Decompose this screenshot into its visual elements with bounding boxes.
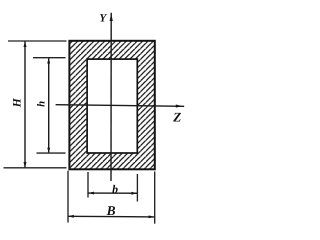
outer rectangle border xyxy=(69,41,154,170)
inner rectangle border xyxy=(87,59,137,153)
svg-text:B: B xyxy=(106,203,116,218)
h dimension bottom arrow xyxy=(47,148,50,153)
B left extension line xyxy=(67,171,69,223)
h dimension top arrow xyxy=(47,58,50,64)
h dimension line xyxy=(48,58,50,152)
B right extension line xyxy=(154,172,156,224)
B dimension line xyxy=(68,215,154,218)
Y axis xyxy=(110,13,112,181)
B dimension right arrow xyxy=(149,215,155,218)
H bottom extension line xyxy=(4,167,67,169)
h top extension line xyxy=(33,57,66,59)
Y axis arrowhead xyxy=(110,13,113,21)
b dimension left arrow xyxy=(88,192,94,195)
H dimension top arrow xyxy=(24,41,27,47)
b left extension line xyxy=(87,172,89,198)
b dimension right arrow xyxy=(131,192,137,195)
b right extension line xyxy=(136,174,138,202)
svg-text:b: b xyxy=(112,182,118,196)
H dimension line xyxy=(24,41,26,167)
svg-text:Y: Y xyxy=(99,12,107,24)
Z axis arrowhead xyxy=(176,105,183,108)
h bottom extension line xyxy=(37,152,66,154)
svg-text:h: h xyxy=(36,101,48,107)
Z axis xyxy=(56,105,185,107)
hollow rectangular section hatched area xyxy=(69,41,154,170)
b dimension line xyxy=(89,192,137,194)
H dimension bottom arrow xyxy=(24,162,27,168)
svg-text:Z: Z xyxy=(172,109,181,124)
svg-text:H: H xyxy=(12,97,24,108)
H top extension line xyxy=(8,40,67,42)
B dimension left arrow xyxy=(68,215,74,218)
